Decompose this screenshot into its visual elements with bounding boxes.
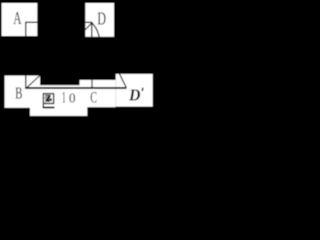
- caption glyph 图 (hand drawn): [43, 94, 53, 104]
- svg-text:0: 0: [69, 91, 76, 106]
- label box D' (white): [116, 74, 153, 107]
- label box C (white): [80, 80, 116, 107]
- caption box 图10 (white): [30, 85, 87, 116]
- label box D (white): [85, 3, 114, 37]
- wire: vertical line above C: [91, 80, 92, 88]
- wire: diagonal from D down-right: [92, 23, 99, 37]
- wire: side AB vertical in A box: [25, 22, 26, 36]
- svg-text:B: B: [15, 84, 22, 103]
- wire: long bottom line BC: [25, 87, 126, 89]
- wire: diagonal cut end near D': [120, 74, 127, 88]
- label box A (white): [2, 3, 38, 36]
- svg-text:D: D: [128, 85, 141, 104]
- svg-text:C: C: [90, 90, 97, 107]
- prime mark of D': [142, 88, 144, 92]
- wire: side AD horizontal in D box: [85, 22, 92, 23]
- wire: side AB vertical in B box: [25, 76, 26, 89]
- svg-text:D: D: [97, 9, 106, 29]
- background: [0, 0, 157, 120]
- underline segment below 图: [43, 107, 55, 109]
- svg-text:A: A: [13, 8, 21, 28]
- wire: diagonal from B up-right: [26, 75, 40, 88]
- wire: diagonal from D down-left: [85, 23, 92, 30]
- wire: vertical line below D: [91, 22, 92, 37]
- wire: side AD horizontal in A box: [25, 22, 37, 23]
- label box B (white): [5, 76, 40, 108]
- svg-text:1: 1: [62, 90, 66, 107]
